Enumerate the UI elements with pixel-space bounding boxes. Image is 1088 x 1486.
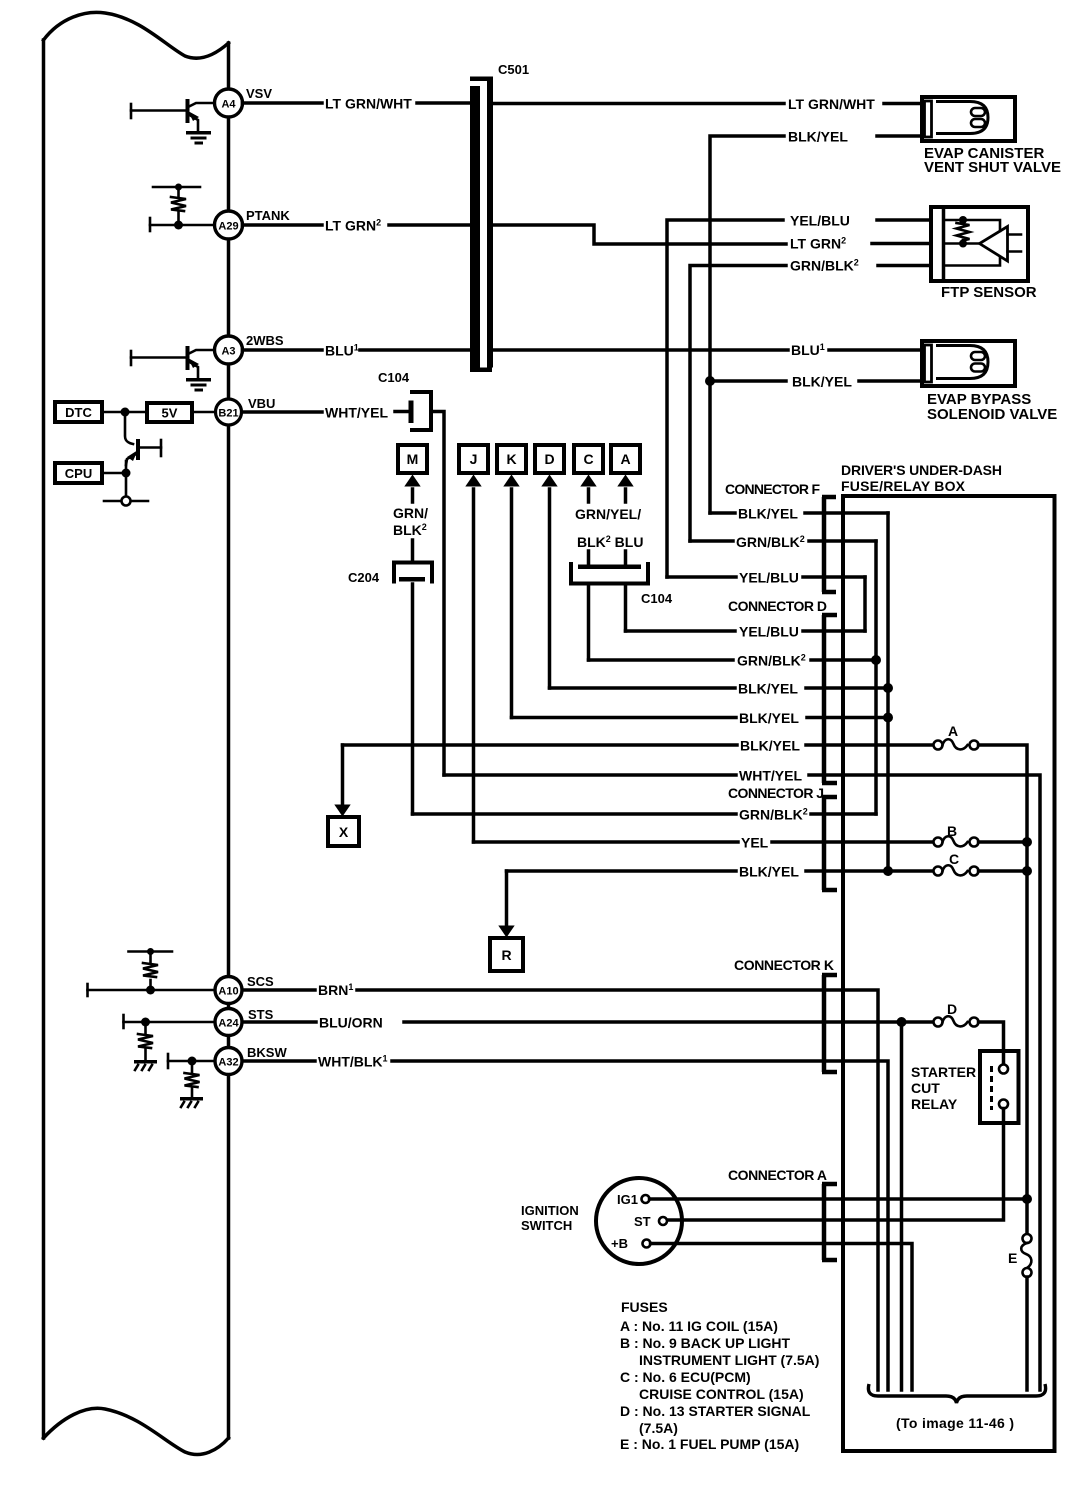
wire BLK/YEL row (connector F) <box>710 506 888 522</box>
transistor Q1 (VSV driver) <box>131 99 214 132</box>
svg-text:LT GRN/WHT: LT GRN/WHT <box>788 96 875 112</box>
pin A24 (STS) <box>215 1007 274 1036</box>
svg-text:A4: A4 <box>221 99 236 111</box>
svg-text:(To image 11-46 ): (To image 11-46 ) <box>896 1415 1014 1431</box>
svg-text:DTC: DTC <box>65 405 92 420</box>
svg-text:C: C <box>583 451 593 467</box>
wire YEL row (J box to fuse B) <box>474 835 934 851</box>
svg-text:VENT SHUT VALVE: VENT SHUT VALVE <box>924 159 1061 176</box>
wire C to GRN/BLK2 row <box>587 584 591 660</box>
svg-text:GRN/YEL/: GRN/YEL/ <box>575 506 641 522</box>
svg-text:C204: C204 <box>348 570 380 585</box>
svg-text:GRN/BLK2: GRN/BLK2 <box>737 653 806 669</box>
connector C204 <box>348 540 432 585</box>
svg-text:BLK/YEL: BLK/YEL <box>792 374 852 390</box>
filter network + chassis ground at A24 <box>124 1015 217 1070</box>
svg-text:CONNECTOR D: CONNECTOR D <box>728 598 827 614</box>
wire YEL/BLU row (connector F) <box>667 570 865 586</box>
ground (2WBS driver) <box>186 378 211 392</box>
svg-text:VSV: VSV <box>246 86 272 101</box>
wire VBU WHT/YEL (B21 to C104) <box>243 405 410 421</box>
wire BLU/ORN branch down <box>900 1022 904 1390</box>
svg-text:SWITCH: SWITCH <box>521 1218 572 1233</box>
svg-text:YEL/BLU: YEL/BLU <box>790 213 850 229</box>
svg-text:BLU/ORN: BLU/ORN <box>319 1015 383 1031</box>
EVAP bypass solenoid valve <box>922 341 1057 423</box>
svg-text:(7.5A): (7.5A) <box>639 1420 678 1436</box>
brace (to image 11-46) <box>868 1384 1045 1431</box>
svg-text:IGNITION: IGNITION <box>521 1203 579 1218</box>
wire BKSW WHT/BLK1 row <box>243 1054 889 1391</box>
svg-text:M: M <box>407 451 419 467</box>
wire PTANK LT GRN2 (A29 to C501, jog, to FTP) <box>243 218 932 252</box>
svg-text:GRN/BLK2: GRN/BLK2 <box>736 534 805 550</box>
destination box J <box>459 445 488 487</box>
svg-text:E: E <box>1008 1250 1017 1266</box>
svg-text:A: A <box>948 723 958 739</box>
connector J bracket <box>728 785 837 890</box>
connector F bracket <box>725 481 836 592</box>
svg-text:BRN1: BRN1 <box>318 982 353 998</box>
svg-text:BKSW: BKSW <box>247 1045 287 1060</box>
wire WHT/YEL row (C104 to fuse box) <box>444 768 1040 1391</box>
wire J to YEL row <box>472 489 476 842</box>
svg-text:LT GRN/WHT: LT GRN/WHT <box>325 96 412 112</box>
svg-text:E : No. 1 FUEL PUMP (15A): E : No. 1 FUEL PUMP (15A) <box>620 1436 799 1452</box>
wire V1 GRN/BLK2 bus inside box <box>874 541 878 814</box>
wire YEL/BLU row (A box to connector D) <box>626 624 866 640</box>
wire STS BLU/ORN row <box>243 1015 934 1031</box>
wire M to connector J GRN/BLK2 <box>411 584 415 814</box>
svg-text:A10: A10 <box>218 986 238 998</box>
ECM pin column wire <box>227 43 231 1438</box>
pin A29 (PTANK) <box>215 208 291 239</box>
switch contact below Q3 <box>104 497 148 506</box>
svg-text:STARTER: STARTER <box>911 1064 976 1080</box>
wire IG1 row <box>650 1197 1028 1201</box>
svg-text:YEL: YEL <box>741 835 769 851</box>
svg-text:A : No. 11 IG COIL (15A): A : No. 11 IG COIL (15A) <box>620 1318 778 1334</box>
svg-text:BLK2: BLK2 <box>393 522 427 538</box>
starter cut relay <box>667 1051 1019 1220</box>
node (D GRN/BLK2 junction) <box>871 655 881 665</box>
svg-text:FUSES: FUSES <box>621 1299 668 1315</box>
svg-text:D : No. 13 STARTER SIGNAL: D : No. 13 STARTER SIGNAL <box>620 1403 811 1419</box>
svg-text:A24: A24 <box>218 1018 239 1030</box>
connector C501 <box>470 62 529 372</box>
DTC box <box>55 402 102 422</box>
wire GRN/BLK2 row (M to connector J) <box>413 807 877 823</box>
wire VSV LT GRN/WHT (A4 to C501 to valve) <box>243 96 923 113</box>
fuse E <box>1008 1234 1032 1390</box>
svg-text:BLK/YEL: BLK/YEL <box>738 506 798 522</box>
wire 2WBS BLU1 (A3 to C501 to valve) <box>243 342 923 359</box>
svg-text:BLU1: BLU1 <box>325 343 359 359</box>
wire GRN/BLK2 vertical (FTP to connector F) <box>690 266 931 542</box>
svg-text:CONNECTOR F: CONNECTOR F <box>725 481 820 497</box>
wire V2 BLK/YEL bus inside box <box>886 513 890 871</box>
svg-text:BLK/YEL: BLK/YEL <box>738 681 798 697</box>
svg-text:BLK/YEL: BLK/YEL <box>739 710 799 726</box>
svg-text:C104: C104 <box>378 370 410 385</box>
connector D bracket <box>728 598 837 783</box>
destination box D <box>535 445 564 487</box>
wire BLK/YEL row (D box to connector D) <box>550 681 889 697</box>
destination box X with arrow <box>328 745 359 846</box>
wire BLK/YEL branch (bypass valve) <box>710 379 922 383</box>
ECM/PCM torn-edge left border <box>44 12 229 1454</box>
svg-text:SOLENOID VALVE: SOLENOID VALVE <box>927 406 1057 423</box>
destination box A <box>611 445 640 502</box>
node (IG1 to fuse E) <box>1022 1194 1032 1204</box>
svg-text:DRIVER'S UNDER-DASH: DRIVER'S UNDER-DASH <box>841 462 1002 478</box>
svg-text:D: D <box>947 1001 957 1017</box>
fuse A <box>934 723 1028 1234</box>
wire BLK/YEL row (R to fuse C) <box>507 864 934 880</box>
svg-text:2WBS: 2WBS <box>246 333 284 348</box>
ground (A4 driver) <box>186 131 211 145</box>
node (DTC junction) <box>121 408 130 417</box>
svg-text:D: D <box>544 451 554 467</box>
destination box C <box>574 445 603 502</box>
wire +B row <box>651 1244 913 1391</box>
wire BLK/YEL row (K box to connector D) <box>512 710 889 726</box>
svg-text:CONNECTOR J: CONNECTOR J <box>728 785 824 801</box>
transistor Q3 (VBU/CPU) <box>125 412 161 497</box>
destination box R with arrow <box>490 871 523 971</box>
svg-text:A3: A3 <box>221 346 235 358</box>
svg-text:C501: C501 <box>498 62 529 77</box>
fuse D <box>934 1001 1004 1064</box>
svg-text:X: X <box>339 824 349 840</box>
CPU box <box>55 463 102 483</box>
driver's under-dash fuse/relay box <box>841 462 1055 1451</box>
wire A to YEL/BLU row <box>624 584 628 631</box>
wire DTC to 5V to B21 <box>102 411 214 414</box>
node (CPU junction) <box>122 469 131 478</box>
connector A bracket <box>728 1167 837 1260</box>
svg-text:BLK/YEL: BLK/YEL <box>739 864 799 880</box>
svg-text:FUSE/RELAY BOX: FUSE/RELAY BOX <box>841 478 966 494</box>
zener/filter network at A29 <box>150 184 215 232</box>
svg-text:5V: 5V <box>162 406 178 421</box>
connector K bracket <box>734 957 837 1072</box>
fuse C <box>934 851 1033 876</box>
pin A3 (2WBS) <box>215 333 284 364</box>
wire K to BLK/YEL row <box>510 489 514 718</box>
svg-text:PTANK: PTANK <box>246 208 290 223</box>
transistor Q2 (2WBS driver) <box>131 346 214 379</box>
node (BLK/YEL branch) <box>705 376 715 386</box>
svg-text:SCS: SCS <box>247 974 274 989</box>
pin A10 (SCS) <box>215 974 274 1004</box>
svg-text:WHT/YEL: WHT/YEL <box>325 405 388 421</box>
svg-text:WHT/BLK1: WHT/BLK1 <box>318 1054 388 1070</box>
wire SCS BRN1 row <box>243 982 879 1390</box>
wire BLK/YEL row (X to fuse A) <box>343 738 934 754</box>
svg-text:LT GRN2: LT GRN2 <box>325 218 381 234</box>
svg-text:A29: A29 <box>218 221 238 233</box>
svg-text:RELAY: RELAY <box>911 1096 958 1112</box>
wire GRN/BLK2 row (C box to connector D) <box>589 653 877 669</box>
label GRN/YEL/ BLK2 BLU (C and A leads) <box>575 506 643 550</box>
pin B21 (VBU) <box>216 396 276 425</box>
fuse B <box>934 823 1033 847</box>
svg-text:LT GRN2: LT GRN2 <box>790 236 846 252</box>
connector C104 (B21 lead) <box>378 370 444 775</box>
svg-text:BLK2 BLU: BLK2 BLU <box>577 534 643 550</box>
svg-text:GRN/BLK2: GRN/BLK2 <box>739 807 808 823</box>
wire GRN/BLK2 row (connector F) <box>690 534 876 550</box>
svg-text:YEL/BLU: YEL/BLU <box>739 624 799 640</box>
wire D to BLK/YEL row <box>548 489 552 688</box>
svg-text:+B: +B <box>611 1236 628 1251</box>
svg-text:VBU: VBU <box>248 396 275 411</box>
5V box <box>147 403 192 422</box>
pin A32 (BKSW) <box>215 1045 287 1075</box>
svg-text:FTP SENSOR: FTP SENSOR <box>941 284 1037 301</box>
svg-text:YEL/BLU: YEL/BLU <box>739 570 799 586</box>
svg-text:J: J <box>470 451 478 467</box>
svg-text:BLK/YEL: BLK/YEL <box>740 738 800 754</box>
connector C104 (C and A leads) <box>571 551 673 606</box>
svg-text:IG1: IG1 <box>617 1192 638 1207</box>
svg-text:C : No. 6 ECU(PCM): C : No. 6 ECU(PCM) <box>620 1369 751 1385</box>
svg-text:STS: STS <box>248 1007 274 1022</box>
svg-text:INSTRUMENT LIGHT (7.5A): INSTRUMENT LIGHT (7.5A) <box>639 1352 819 1368</box>
svg-text:A32: A32 <box>218 1057 238 1069</box>
svg-text:ST: ST <box>634 1214 651 1229</box>
filter network + chassis ground at A32 <box>168 1054 215 1107</box>
pin A4 (VSV) <box>215 86 273 117</box>
svg-text:B : No. 9 BACK UP LIGHT: B : No. 9 BACK UP LIGHT <box>620 1335 791 1351</box>
wire YEL/BLU loop inside fuse box <box>863 577 867 631</box>
filter network at A10 <box>88 948 217 996</box>
wire YEL/BLU vertical (FTP to connector F) <box>667 220 931 577</box>
destination box K <box>497 445 526 487</box>
wire CPU to Q3 emitter node <box>102 472 126 475</box>
svg-text:B21: B21 <box>218 408 238 420</box>
svg-text:BLK/YEL: BLK/YEL <box>788 129 848 145</box>
FTP sensor <box>931 207 1037 301</box>
destination box M <box>398 445 427 502</box>
svg-text:CRUISE CONTROL (15A): CRUISE CONTROL (15A) <box>639 1386 804 1402</box>
svg-text:BLU1: BLU1 <box>791 342 825 358</box>
svg-text:K: K <box>506 451 516 467</box>
svg-text:GRN/: GRN/ <box>393 505 428 521</box>
svg-text:CONNECTOR K: CONNECTOR K <box>734 957 834 973</box>
svg-text:GRN/BLK2: GRN/BLK2 <box>790 258 859 274</box>
svg-text:CUT: CUT <box>911 1080 940 1096</box>
node (D BLK/YEL junctions) <box>883 683 893 693</box>
svg-text:CPU: CPU <box>65 466 92 481</box>
node (BLU/ORN branch) <box>897 1017 907 1027</box>
svg-text:C104: C104 <box>641 591 673 606</box>
svg-text:WHT/YEL: WHT/YEL <box>739 768 802 784</box>
ignition switch <box>521 1178 682 1264</box>
EVAP canister vent shut valve <box>922 97 1061 176</box>
svg-text:CONNECTOR A: CONNECTOR A <box>728 1167 827 1183</box>
wire BLK/YEL vertical (vent valve to connector F) <box>710 136 922 513</box>
svg-text:R: R <box>501 947 511 963</box>
fuse legend <box>620 1299 819 1452</box>
svg-text:A: A <box>620 451 630 467</box>
